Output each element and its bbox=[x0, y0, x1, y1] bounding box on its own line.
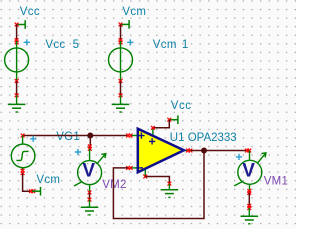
terminal marker bbox=[119, 23, 123, 27]
wire VG1 output to op-amp +input bbox=[23, 135, 129, 137]
ground V2 bbox=[112, 104, 130, 112]
terminal marker bbox=[29, 189, 33, 193]
terminal marker bbox=[119, 93, 123, 97]
terminal marker bbox=[119, 38, 123, 42]
svg-text:U1 OPA2333: U1 OPA2333 bbox=[170, 132, 237, 144]
voltmeter VM1 bbox=[234, 153, 266, 186]
svg-text:Vcc: Vcc bbox=[45, 39, 65, 51]
power jumper Vcm at VG1 bottom bbox=[32, 187, 41, 196]
op-amp U1 OPA2333 triangle bbox=[138, 129, 184, 173]
svg-text:1: 1 bbox=[182, 39, 188, 51]
voltage source V1 (Vcc 5) bbox=[5, 41, 29, 81]
op-amp input lead - bbox=[131, 167, 138, 169]
ground VM2 bbox=[81, 207, 99, 215]
op-amp +input marker bbox=[138, 133, 144, 139]
ground op-amp bbox=[161, 190, 179, 198]
ground stub V1 bbox=[16, 95, 18, 104]
plus sign of voltmeter VM1 bbox=[236, 154, 242, 160]
wire op-amp V- supply to ground bbox=[145, 177, 169, 184]
terminal marker bbox=[126, 134, 130, 138]
op-amp input lead + bbox=[131, 135, 138, 137]
voltage source V2 (Vcm 1) bbox=[109, 41, 133, 81]
terminal marker bbox=[245, 149, 249, 153]
plus sign of source V1 bbox=[24, 39, 30, 45]
terminal marker bbox=[21, 169, 25, 173]
svg-text:Vcc: Vcc bbox=[171, 100, 192, 112]
ground VM1 bbox=[241, 216, 259, 224]
ground stub V2 bbox=[120, 95, 122, 104]
feedback wire from -input bbox=[113, 151, 204, 219]
op-amp supply plus marker bbox=[149, 138, 155, 144]
plus sign of source V2 bbox=[127, 39, 133, 45]
terminal marker bbox=[31, 189, 35, 193]
terminal marker bbox=[88, 198, 92, 202]
svg-text:VG1: VG1 bbox=[56, 131, 80, 143]
terminal marker bbox=[143, 175, 147, 179]
ground stub VM2 bbox=[89, 200, 91, 208]
wire V2 top bbox=[120, 24, 122, 41]
junction node at output bbox=[201, 148, 207, 154]
terminal marker bbox=[15, 38, 19, 42]
terminal marker bbox=[167, 118, 171, 122]
op-amp -input marker bbox=[139, 167, 143, 169]
ground stub op-amp bbox=[168, 184, 170, 190]
junction node at VG1 wire / VM2 bbox=[87, 133, 93, 139]
power jumper Vcc at op-amp bbox=[169, 115, 178, 124]
wire op-amp Vcc supply bbox=[153, 120, 169, 128]
wire V1 top bbox=[16, 25, 18, 42]
terminal marker bbox=[88, 191, 92, 195]
terminal marker bbox=[247, 191, 251, 195]
terminal marker bbox=[247, 204, 251, 208]
terminal marker bbox=[247, 206, 251, 210]
wire VG1 bottom to Vcm jumper bbox=[23, 173, 33, 191]
wire op-amp output to VM1 bbox=[190, 150, 249, 152]
voltmeter VM2 lead bottom bbox=[89, 185, 91, 193]
wire VM1 to ground bbox=[248, 193, 250, 208]
terminal marker bbox=[15, 79, 19, 83]
terminal marker bbox=[189, 149, 193, 153]
terminal marker bbox=[247, 189, 251, 193]
wire junction to VM2 bbox=[89, 136, 91, 149]
power jumper Vcm at V2 top bbox=[121, 20, 130, 29]
terminal marker bbox=[21, 134, 25, 138]
generator VG1 lead top bbox=[22, 136, 24, 145]
terminal marker bbox=[88, 144, 92, 148]
wire V2 bottom bbox=[120, 81, 122, 95]
svg-text:Vcm: Vcm bbox=[153, 39, 177, 51]
plus sign of generator VG1 bbox=[30, 136, 36, 142]
voltage generator VG1 bbox=[11, 144, 35, 168]
svg-text:Vcc: Vcc bbox=[20, 6, 40, 18]
voltmeter VM1 lead bottom bbox=[249, 184, 251, 192]
terminal marker bbox=[168, 182, 172, 186]
terminal marker bbox=[186, 149, 190, 153]
terminal marker bbox=[129, 134, 133, 138]
wire VM2 to ground bbox=[89, 192, 91, 199]
terminal marker bbox=[15, 93, 19, 97]
terminal marker bbox=[88, 147, 92, 151]
terminal marker bbox=[15, 41, 19, 45]
svg-text:V: V bbox=[242, 160, 255, 181]
op-amp bottom supply lead bbox=[144, 168, 146, 177]
generator VG1 lead bottom bbox=[22, 168, 24, 172]
terminal marker bbox=[15, 23, 19, 27]
svg-text:Vcm: Vcm bbox=[122, 6, 146, 18]
terminal marker bbox=[129, 166, 133, 170]
power jumper Vcc at V1 top bbox=[17, 20, 26, 29]
terminal marker bbox=[21, 171, 25, 175]
op-amp output lead bbox=[184, 150, 191, 152]
terminal marker bbox=[247, 149, 251, 153]
svg-text:5: 5 bbox=[73, 39, 79, 51]
terminal marker bbox=[126, 166, 130, 170]
terminal marker bbox=[119, 41, 123, 45]
voltmeter VM1 lead top bbox=[249, 151, 251, 161]
terminal marker bbox=[151, 126, 155, 130]
voltmeter VM2 lead top bbox=[89, 149, 91, 161]
svg-text:VM2: VM2 bbox=[102, 179, 127, 191]
svg-text:VM1: VM1 bbox=[264, 176, 289, 188]
ground stub VM1 bbox=[248, 208, 250, 216]
svg-text:V: V bbox=[82, 160, 95, 181]
voltmeter VM2 bbox=[74, 154, 106, 186]
wire V1 bottom bbox=[16, 81, 18, 95]
op-amp top supply lead bbox=[152, 128, 154, 137]
terminal marker bbox=[119, 79, 123, 83]
ground V1 bbox=[8, 104, 26, 112]
svg-text:Vcm: Vcm bbox=[36, 174, 60, 186]
plus sign of voltmeter VM2 bbox=[75, 149, 81, 155]
